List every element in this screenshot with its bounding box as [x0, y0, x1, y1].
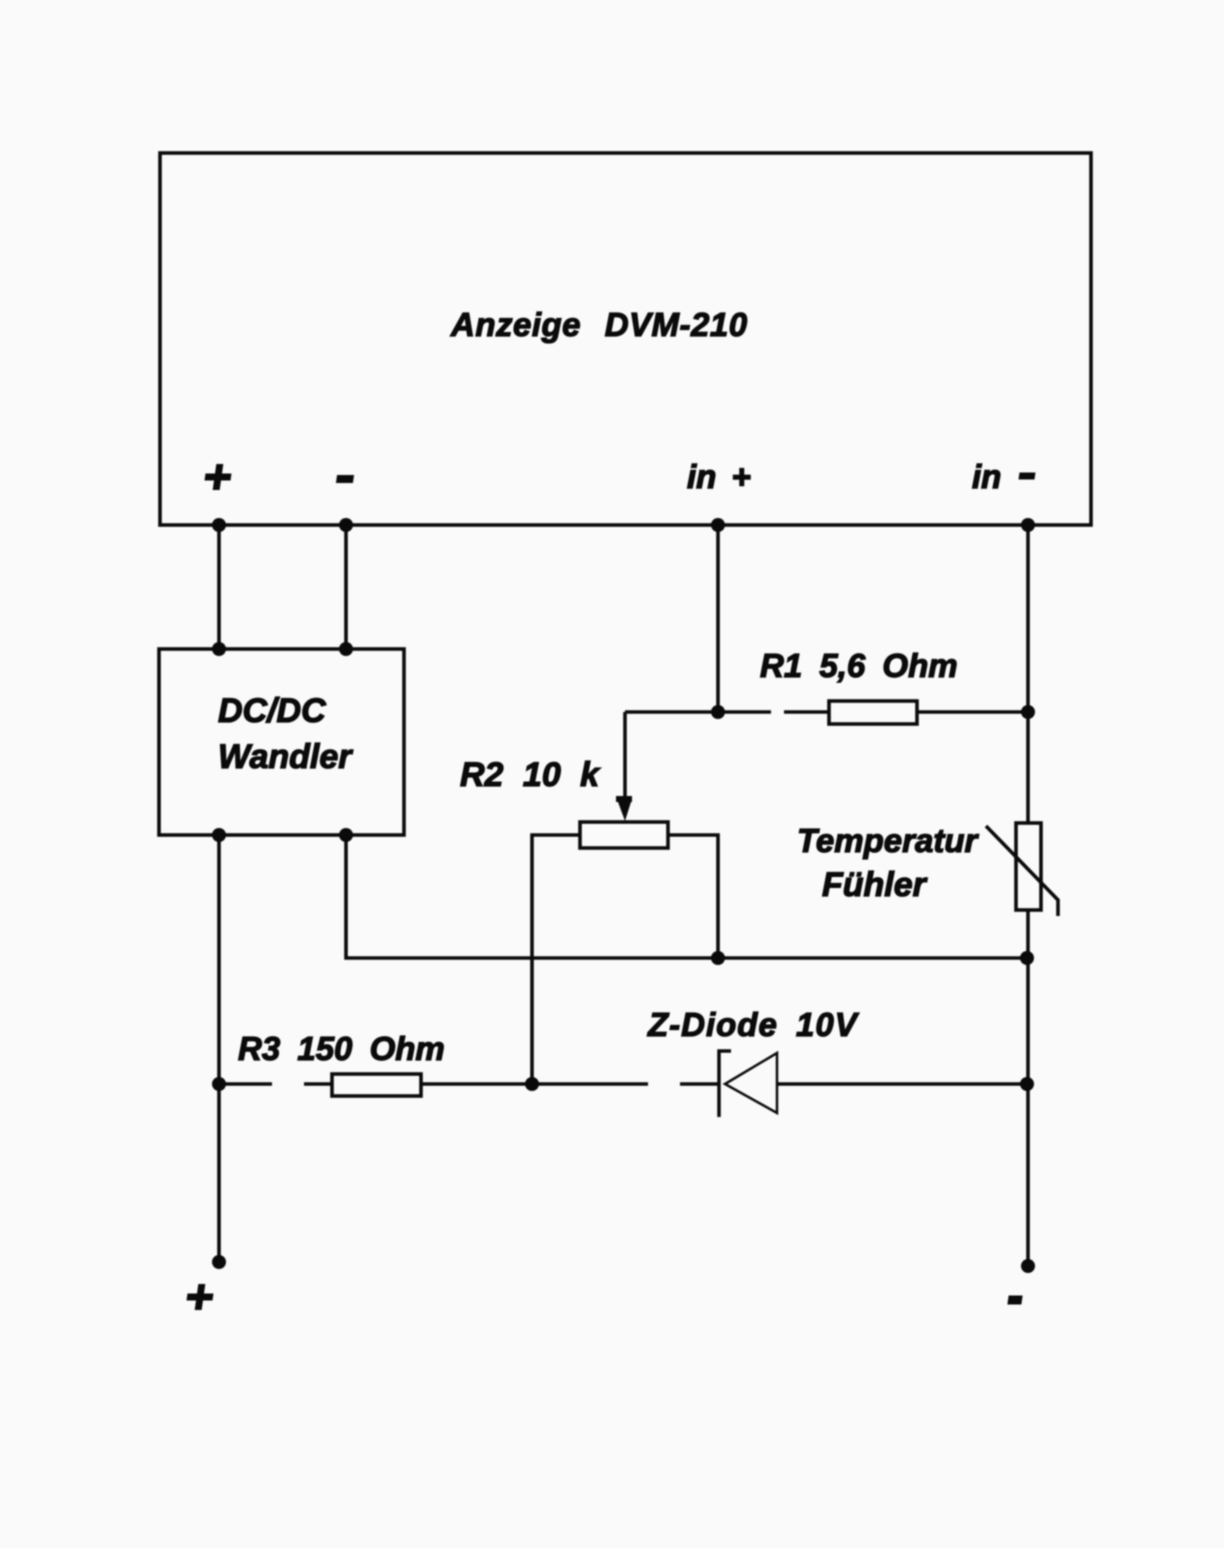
wire DC/DC plus down to bottom [217, 835, 221, 1262]
thermistor diagonal stroke [986, 826, 1058, 916]
zener diode D1 cathode bar [719, 1051, 731, 1117]
svg-text:Anzeige DVM-210: Anzeige DVM-210 [450, 306, 748, 343]
junction dot DC/DC top left [212, 642, 226, 656]
resistor R1 body [829, 701, 917, 724]
R2 wiper arrow [616, 796, 632, 821]
wire diode to in- vertical [777, 1082, 1028, 1086]
wire R2 right lead [668, 835, 718, 959]
wire DC/DC minus to bottom rail [346, 835, 1028, 958]
junction dot bottom line / left vertical [212, 1077, 226, 1091]
box DC/DC Wandler [159, 649, 404, 835]
svg-text:R3 150 Ohm: R3 150 Ohm [238, 1030, 445, 1067]
wire R1 right segment [917, 710, 1028, 714]
box U1 Anzeige DVM-210 [160, 153, 1091, 525]
svg-text:in +: in + [687, 458, 751, 495]
label battery - [1007, 1296, 1022, 1305]
wire R2 wiper vertical [623, 712, 627, 800]
terminal dot battery minus [1021, 1259, 1035, 1273]
potentiometer R2 body [580, 822, 668, 848]
pin label + (display supply plus) [203, 464, 233, 490]
svg-text:Z-Diode 10V: Z-Diode 10V [647, 1006, 860, 1043]
wire in- vertical long [1026, 525, 1030, 1266]
junction dot rail / in- vertical [1020, 951, 1034, 965]
wire supply minus vertical (display - to DC/DC) [344, 525, 348, 649]
junction dot DC/DC bottom right [339, 828, 353, 842]
junction dot display - [339, 518, 353, 532]
wire dash segment before diode [680, 1082, 719, 1086]
junction dot R1 line / in- vertical [1021, 705, 1035, 719]
svg-text:R2 10 k: R2 10 k [460, 756, 601, 794]
svg-text:DC/DC: DC/DC [218, 692, 326, 730]
svg-text:R1 5,6 Ohm: R1 5,6 Ohm [760, 647, 958, 684]
wire bottom line dash segment [304, 1082, 332, 1086]
label battery + [185, 1284, 215, 1310]
terminal dot battery plus [212, 1255, 226, 1269]
wire R1 left segment [784, 710, 829, 714]
zener diode D1 triangle [725, 1053, 777, 1113]
resistor R3 body [332, 1074, 421, 1096]
junction dot bottom line / R2 left lead [525, 1077, 539, 1091]
wire R2 left lead [532, 835, 580, 1084]
junction dot bottom line / in- vertical [1020, 1077, 1034, 1091]
svg-text:Temperatur: Temperatur [797, 822, 979, 859]
wire supply plus vertical (display + to DC/DC) [217, 525, 221, 649]
junction dot DC/DC bottom left [212, 828, 226, 842]
wire R3 to diode [421, 1082, 648, 1086]
wire in+ vertical [716, 525, 720, 712]
junction dot DC/DC top right [339, 642, 353, 656]
junction dot in+ / R1 line [711, 705, 725, 719]
junction dot display + [212, 518, 226, 532]
svg-text:in: in [972, 458, 1001, 495]
svg-text:Fühler: Fühler [822, 866, 928, 904]
junction dot display in+ [711, 518, 725, 532]
svg-text:Wandler: Wandler [218, 738, 353, 776]
pin label - (display supply minus) [336, 475, 354, 483]
wire node in+ horizontal to R1 left [625, 710, 771, 714]
junction dot R2 right lead / rail [711, 951, 725, 965]
wire bottom line left segment [219, 1082, 272, 1086]
thermistor body (Temperatur Fuhler) [1016, 823, 1041, 910]
junction dot display in- [1021, 518, 1035, 532]
